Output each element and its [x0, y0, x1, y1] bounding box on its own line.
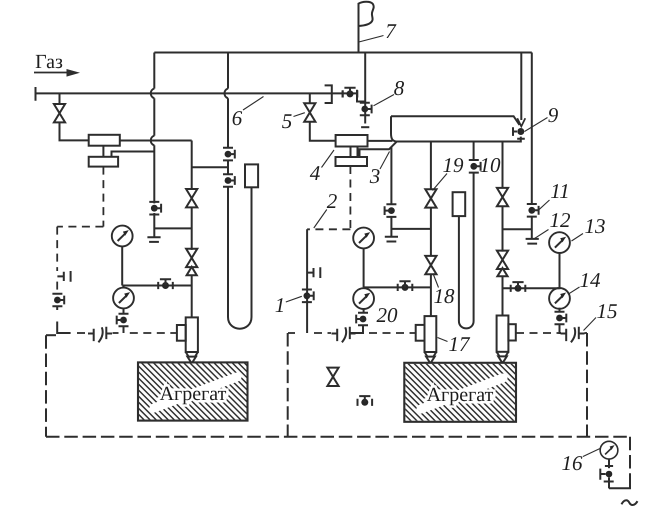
svg-text:6: 6	[232, 106, 243, 130]
svg-text:16: 16	[562, 451, 584, 475]
svg-text:14: 14	[580, 268, 602, 292]
svg-text:5: 5	[282, 109, 293, 133]
svg-text:17: 17	[449, 332, 472, 356]
svg-text:Агрегат: Агрегат	[160, 383, 227, 405]
svg-text:13: 13	[585, 214, 606, 238]
svg-text:1: 1	[275, 293, 286, 317]
svg-text:15: 15	[597, 299, 618, 323]
svg-text:19: 19	[443, 153, 465, 177]
svg-text:7: 7	[385, 19, 397, 43]
svg-text:11: 11	[550, 179, 569, 203]
svg-text:2: 2	[327, 189, 338, 213]
svg-text:12: 12	[550, 208, 572, 232]
svg-text:9: 9	[548, 103, 559, 127]
svg-text:10: 10	[480, 153, 502, 177]
svg-text:3: 3	[369, 164, 381, 188]
svg-text:Газ: Газ	[35, 51, 63, 73]
svg-text:4: 4	[310, 161, 321, 185]
svg-text:8: 8	[394, 76, 405, 100]
svg-text:20: 20	[377, 303, 399, 327]
svg-text:Агрегат: Агрегат	[427, 384, 494, 406]
svg-text:18: 18	[434, 284, 456, 308]
